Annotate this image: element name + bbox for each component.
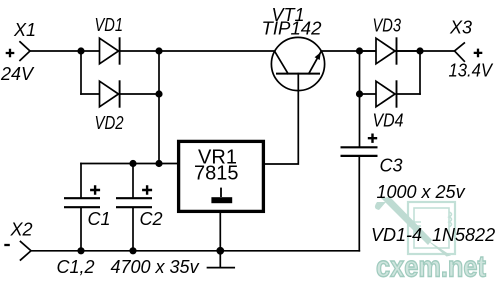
svg-text:cxem.net: cxem.net [376,251,486,282]
svg-text:C2: C2 [140,209,163,229]
svg-text:7815: 7815 [194,163,239,185]
svg-text:VD4: VD4 [373,111,404,131]
svg-text:13.4V: 13.4V [449,61,494,81]
svg-text:24V: 24V [0,64,35,84]
svg-text:4700 x 35v: 4700 x 35v [111,257,200,277]
svg-text:VD3: VD3 [373,16,402,36]
svg-text:C1: C1 [88,209,111,229]
svg-text:C1,2: C1,2 [57,257,95,277]
svg-text:VD1-4 1N5822: VD1-4 1N5822 [371,225,495,245]
svg-text:X1: X1 [13,20,36,40]
svg-text:VD1: VD1 [95,15,124,35]
svg-text:X2: X2 [10,220,33,240]
svg-text:TIP142: TIP142 [262,19,322,39]
svg-text:C3: C3 [380,156,403,176]
svg-text:VD2: VD2 [95,113,124,133]
svg-text:1000 x 25v: 1000 x 25v [377,182,466,202]
svg-text:X3: X3 [449,18,472,38]
